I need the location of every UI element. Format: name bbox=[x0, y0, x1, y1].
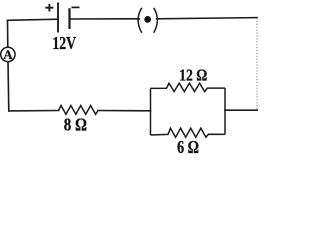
svg-text:6 Ω: 6 Ω bbox=[177, 139, 199, 156]
svg-text:12V: 12V bbox=[52, 34, 76, 53]
svg-text:8 Ω: 8 Ω bbox=[64, 114, 87, 135]
svg-text:A: A bbox=[3, 47, 13, 62]
svg-text:12 Ω: 12 Ω bbox=[179, 66, 207, 85]
